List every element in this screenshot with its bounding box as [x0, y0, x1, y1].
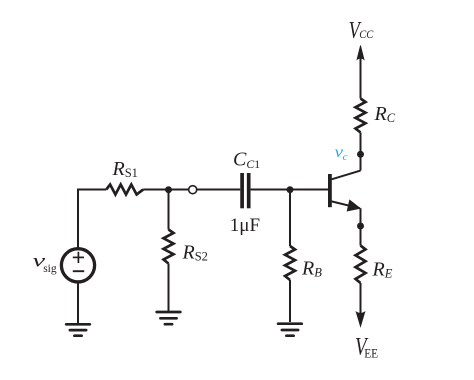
VEE supply arrow	[356, 312, 365, 327]
svg-text:RC: RC	[374, 103, 396, 125]
wire: RB to ground	[289, 280, 291, 322]
wire: RC up to VCC arrow	[360, 57, 362, 99]
wire: RS2 to ground	[168, 264, 170, 312]
transistor Q1	[330, 171, 361, 211]
svg-text:CC: CC	[359, 28, 374, 40]
resistor RC	[356, 99, 366, 133]
wire: source bottom lead to ground	[77, 265, 79, 324]
input terminal open node	[189, 186, 197, 194]
wire: emitter vertical from arrow to RE	[360, 208, 362, 245]
wire: capacitor CC1 to transistor base	[251, 189, 329, 191]
svg-text:RB: RB	[301, 257, 322, 279]
wire: RB branch from node B	[289, 190, 291, 247]
svg-text:RS1: RS1	[112, 158, 138, 180]
wire: input terminal to capacitor CC1	[197, 189, 241, 191]
svg-text:1μF: 1μF	[230, 215, 260, 236]
signal source vsig	[61, 249, 94, 282]
label VCC	[349, 16, 374, 43]
label vc	[335, 144, 348, 163]
svg-text:RE: RE	[372, 258, 393, 280]
junction node A	[165, 186, 172, 193]
ground for vsig	[66, 324, 90, 335]
svg-text:sig: sig	[43, 263, 57, 275]
wire: RE down to VEE arrow	[360, 283, 362, 315]
junction node B	[287, 186, 294, 193]
ground for RB	[278, 324, 302, 336]
node vc dot	[357, 151, 364, 158]
label vsig	[33, 252, 57, 275]
wire: RS1 to input terminal	[143, 189, 189, 191]
VCC supply arrow	[357, 46, 364, 60]
capacitor CC1	[242, 173, 249, 208]
node E dot	[357, 223, 364, 230]
wire: RS2 branch from node A	[168, 190, 170, 230]
wire: source top lead and main wire corner to RS1	[78, 190, 106, 266]
resistor RE	[356, 246, 366, 284]
resistor RB	[285, 246, 295, 280]
svg-text:CC1: CC1	[233, 149, 260, 172]
ground for RS2	[157, 312, 181, 324]
svg-text:EE: EE	[364, 346, 378, 361]
resistor RS1	[106, 185, 143, 195]
wire: collector vertical from transistor to RC	[360, 133, 362, 171]
label VEE	[355, 332, 378, 361]
resistor RS2	[164, 230, 174, 264]
svg-text:c: c	[343, 151, 348, 163]
svg-text:RS2: RS2	[182, 241, 208, 263]
